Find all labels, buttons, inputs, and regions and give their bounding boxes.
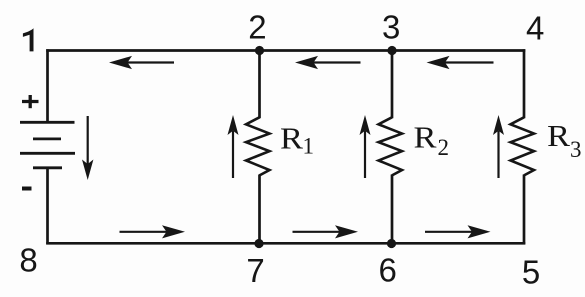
label R3	[547, 118, 582, 162]
label R2	[414, 119, 450, 159]
battery plus terminal label	[22, 95, 39, 108]
current arrow left (top, between 1 and 2)	[109, 56, 174, 69]
wire R2 top lead (node 3 down)	[391, 49, 394, 118]
node 1 label	[23, 28, 34, 51]
wire right vertical upper (node 4 down)	[523, 49, 526, 118]
wire left vertical lower (battery - to node 8)	[46, 167, 49, 244]
svg-text:R: R	[547, 118, 570, 153]
svg-text:4: 4	[526, 10, 544, 47]
svg-text:8: 8	[19, 241, 37, 278]
svg-text:R: R	[280, 120, 303, 155]
current arrow up beside R2	[360, 115, 371, 178]
wire top rail nodes 1-2-3-4	[46, 49, 525, 52]
junction dot node 7	[254, 239, 263, 248]
current arrow down beside battery	[82, 116, 93, 180]
battery B1 plate long top	[20, 121, 75, 124]
wire R1 bottom lead (to node 7)	[258, 175, 261, 245]
resistor R2 zigzag	[379, 117, 403, 175]
svg-text:5: 5	[522, 253, 540, 290]
junction dot node 2	[255, 46, 264, 55]
current arrow right (bottom, between 7 and 6)	[293, 225, 359, 238]
svg-text:1: 1	[303, 134, 315, 159]
svg-text:2: 2	[438, 135, 450, 160]
resistor R3 zigzag	[511, 117, 535, 175]
wire left vertical upper (node 1 to battery +)	[46, 49, 49, 122]
label R1	[280, 120, 314, 158]
wire right vertical lower (to node 5)	[523, 175, 526, 245]
svg-text:2: 2	[248, 9, 266, 46]
wire bottom rail nodes 8-7-6-5	[46, 242, 525, 245]
current arrow right (bottom, between 8 and 7)	[120, 225, 186, 238]
wire R2 bottom lead (to node 6)	[391, 175, 394, 245]
wire R1 top lead (node 2 down)	[258, 49, 261, 118]
current arrow left (top, between 3 and 4)	[427, 56, 494, 69]
junction dot node 6	[387, 239, 396, 248]
svg-text:3: 3	[570, 137, 582, 162]
junction dot node 3	[387, 46, 396, 55]
svg-text:R: R	[414, 119, 437, 154]
battery minus terminal label	[22, 187, 32, 191]
current arrow up beside R1	[228, 115, 239, 178]
battery B1 plate short	[33, 137, 61, 140]
svg-text:7: 7	[246, 252, 264, 289]
svg-text:6: 6	[379, 251, 397, 288]
battery B1 plate short bottom	[33, 166, 62, 169]
current arrow up beside R3	[493, 115, 504, 178]
current arrow left (top, between 2 and 3)	[295, 56, 361, 69]
svg-text:3: 3	[382, 9, 400, 46]
resistor R1 zigzag	[246, 117, 270, 175]
current arrow right (bottom, between 6 and 5)	[425, 225, 491, 238]
battery B1 plate long	[20, 152, 75, 155]
